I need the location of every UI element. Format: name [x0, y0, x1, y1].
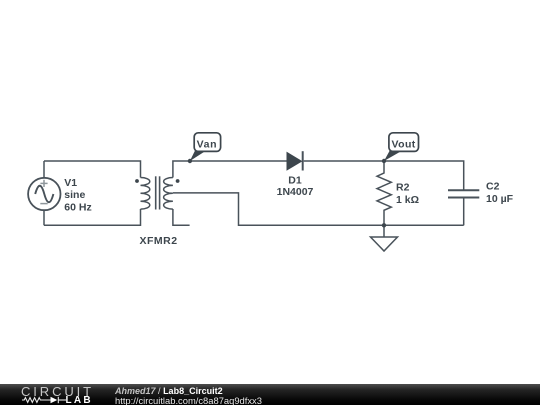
- svg-text:Vout: Vout: [392, 138, 416, 150]
- svg-text:Van: Van: [197, 138, 217, 150]
- svg-text:R2: R2: [396, 182, 410, 194]
- svg-text:D1: D1: [288, 175, 302, 187]
- svg-text:1 kΩ: 1 kΩ: [396, 194, 419, 206]
- svg-text:1N4007: 1N4007: [277, 186, 314, 198]
- svg-text:sine: sine: [64, 189, 85, 201]
- svg-text:60 Hz: 60 Hz: [64, 201, 91, 213]
- svg-text:XFMR2: XFMR2: [139, 235, 177, 247]
- svg-text:10 µF: 10 µF: [486, 193, 514, 205]
- svg-text:V1: V1: [64, 177, 77, 189]
- svg-text:C2: C2: [486, 181, 500, 193]
